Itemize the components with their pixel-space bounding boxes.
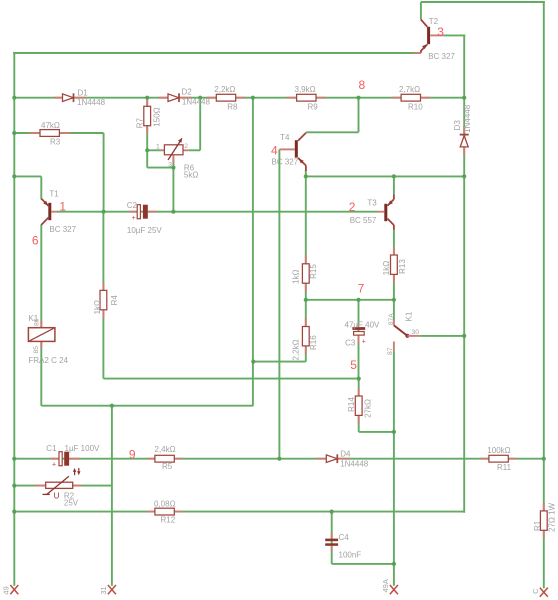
connector 31	[99, 585, 116, 595]
wire R7 vertical x=147.2	[146, 98, 148, 168]
svg-text:K1: K1	[404, 311, 413, 321]
svg-text:1: 1	[59, 200, 66, 214]
wire R2 row y=485.6	[13, 485, 112, 487]
svg-text:3: 3	[437, 25, 444, 39]
transistor T4 BC327	[271, 133, 306, 171]
varistor R2	[35, 468, 82, 508]
svg-text:87A: 87A	[388, 313, 395, 326]
svg-text:R12: R12	[161, 516, 176, 525]
wire R14 vertical x=358.7	[358, 379, 360, 432]
svg-text:9: 9	[129, 447, 136, 461]
svg-text:T3: T3	[367, 199, 377, 208]
svg-text:27Ω 1W: 27Ω 1W	[548, 502, 557, 532]
resistor R12 0.08	[147, 499, 183, 524]
svg-text:1N4448: 1N4448	[340, 459, 369, 468]
svg-text:2,7kΩ: 2,7kΩ	[399, 85, 420, 94]
capacitor C1 1uF	[46, 444, 100, 468]
wire T4 collector vertical x=358.5	[358, 98, 360, 133]
svg-text:47µF 40V: 47µF 40V	[345, 320, 381, 329]
svg-text:5kΩ: 5kΩ	[184, 171, 198, 180]
wire R16 bottom row y=361.6	[253, 361, 305, 363]
svg-text:31: 31	[99, 586, 108, 594]
svg-text:100nF: 100nF	[339, 551, 362, 560]
svg-text:100kΩ: 100kΩ	[487, 446, 510, 455]
wire R6 pin2 vertical x=200.2	[199, 98, 201, 151]
wire R4 vertical x=103.4	[102, 212, 104, 379]
svg-text:C3: C3	[345, 338, 356, 347]
svg-text:2,2kΩ: 2,2kΩ	[214, 85, 235, 94]
wire C4 bottom row y=563.9	[332, 563, 394, 565]
svg-text:10µF 25V: 10µF 25V	[127, 226, 163, 235]
svg-text:BC 327: BC 327	[272, 158, 299, 167]
svg-text:1kΩ: 1kΩ	[93, 300, 102, 314]
svg-text:R4: R4	[110, 295, 119, 306]
svg-text:T4: T4	[280, 133, 290, 142]
svg-text:30: 30	[412, 329, 420, 336]
svg-text:C2: C2	[127, 201, 138, 210]
resistor R11 100k	[481, 446, 517, 472]
wire R6 pin2 row	[189, 149, 200, 151]
wire node7 row y=299.8	[306, 299, 394, 301]
svg-text:49: 49	[1, 586, 10, 594]
svg-text:D1: D1	[78, 89, 89, 98]
svg-text:C: C	[531, 588, 540, 594]
capacitor C2 10uF	[127, 201, 163, 235]
wire T3 emitter vertical	[393, 176, 395, 194]
svg-text:R9: R9	[308, 103, 319, 112]
svg-text:R14: R14	[347, 397, 356, 412]
transistor T1 BC327	[32, 190, 77, 248]
wire emitter row y=176.4	[306, 175, 464, 177]
wire R6 pin3 vertical x=173.4	[172, 158, 174, 212]
transistor T3 BC557	[349, 195, 394, 230]
svg-text:BC 327: BC 327	[49, 225, 76, 234]
resistor R15 1k	[292, 255, 318, 292]
svg-text:49A: 49A	[381, 579, 390, 592]
svg-text:R15: R15	[309, 264, 318, 279]
svg-text:2: 2	[184, 143, 188, 150]
resistor R10 2.7k	[392, 85, 431, 112]
svg-text:1N4448: 1N4448	[182, 97, 211, 106]
wire net31 vertical x=111.9	[111, 406, 113, 586]
wire node9 row y=458.7 C1-R5-D4-R11	[13, 458, 544, 460]
resistor R3 47k	[29, 121, 71, 146]
svg-text:1N4448: 1N4448	[463, 104, 472, 133]
svg-text:25V: 25V	[64, 499, 79, 508]
svg-text:D4: D4	[340, 450, 351, 459]
svg-text:8: 8	[359, 78, 366, 92]
svg-text:0,08Ω: 0,08Ω	[154, 499, 176, 508]
svg-text:U: U	[54, 491, 60, 500]
svg-text:3,9kΩ: 3,9kΩ	[295, 85, 316, 94]
capacitor C4 100nF	[325, 533, 361, 560]
connector C	[531, 588, 548, 597]
svg-text:6: 6	[32, 233, 39, 247]
svg-text:+: +	[132, 215, 136, 222]
wire top net from T2 collector to right rail	[421, 1, 545, 3]
diode D3 vertical	[453, 104, 472, 156]
svg-text:4: 4	[271, 143, 278, 157]
wire R3 right vertical x=103.6	[103, 133, 105, 212]
potentiometer R6 5k	[156, 138, 198, 180]
svg-text:R1: R1	[533, 520, 542, 531]
svg-text:27kΩ: 27kΩ	[364, 399, 373, 418]
wire long top rail y=53	[13, 52, 421, 54]
svg-text:1N4448: 1N4448	[77, 98, 106, 107]
wire K1 coil row y=405.7	[41, 405, 253, 407]
resistor R5 2.4k	[147, 445, 183, 471]
connector 49	[1, 585, 18, 595]
wire T1 emitter vertical x=41.3	[40, 176, 42, 199]
wire T1 collector to K1 coil x=41.3	[40, 225, 42, 406]
svg-text:R11: R11	[497, 463, 512, 472]
svg-text:1: 1	[156, 144, 160, 151]
svg-text:1µF 100V: 1µF 100V	[65, 444, 101, 453]
svg-text:R13: R13	[398, 259, 407, 274]
resistor R13 1k	[382, 247, 407, 283]
wire R14 bottom row y=431.9	[359, 431, 394, 433]
svg-text:C4: C4	[339, 533, 350, 542]
resistor R8 2.2k	[207, 85, 246, 112]
wire R13 vertical x=393.9	[393, 229, 395, 300]
wire K1 87A vertical	[393, 300, 395, 321]
wire node5 row y=378.6	[103, 378, 358, 380]
svg-text:D2: D2	[182, 88, 193, 97]
wire T2 collector stub up	[420, 2, 422, 20]
wire K1 contact 30 row y=335.9	[420, 335, 464, 337]
svg-text:D3: D3	[453, 120, 462, 131]
wire R6 pin3 row y=167.6	[147, 167, 173, 169]
resistor R9 3.9k	[287, 85, 326, 112]
relay K1 switch contact	[387, 311, 420, 355]
wire R12 row y=511.6	[13, 511, 464, 513]
svg-text:T1: T1	[49, 190, 59, 199]
svg-text:R5: R5	[162, 462, 173, 471]
svg-text:FRA2 C 24: FRA2 C 24	[28, 356, 68, 365]
wire R15-R16 vertical x=305.8	[305, 170, 307, 362]
wire net4 vertical x=279.4 T4 base	[278, 149, 280, 458]
svg-text:47kΩ: 47kΩ	[41, 121, 60, 130]
svg-text:+: +	[362, 338, 366, 345]
wire right rail x=543.8	[543, 2, 545, 588]
svg-text:5: 5	[350, 358, 357, 372]
svg-text:R16: R16	[309, 335, 318, 350]
svg-text:+: +	[52, 461, 56, 468]
wire coil drive vertical x=252.9	[252, 98, 254, 406]
diode D4	[317, 450, 369, 469]
svg-text:C1: C1	[46, 444, 57, 453]
wire T1 emitter row y=176.4 left	[13, 175, 41, 177]
svg-text:150Ω: 150Ω	[153, 107, 162, 126]
connector 49A	[381, 579, 398, 594]
svg-text:1kΩ: 1kΩ	[382, 261, 391, 275]
resistor R16 2.2k	[291, 318, 317, 361]
wire T4 collector row y=132.3	[306, 131, 359, 133]
svg-text:2: 2	[349, 200, 356, 214]
diode D1	[54, 89, 106, 107]
wire K1 87 vertical down	[393, 351, 395, 586]
svg-text:K1: K1	[28, 314, 38, 323]
svg-text:2,2kΩ: 2,2kΩ	[291, 339, 300, 360]
wire R6 pin1 row	[147, 149, 161, 151]
svg-text:R8: R8	[227, 103, 238, 112]
svg-text:85: 85	[33, 346, 40, 354]
svg-text:2,4kΩ: 2,4kΩ	[155, 445, 176, 454]
capacitor C3 47uF	[345, 320, 381, 347]
svg-text:R3: R3	[50, 137, 61, 146]
relay K1 coil FRA2	[28, 314, 68, 365]
diode D2	[159, 88, 211, 107]
wire left rail x=14.3	[13, 52, 15, 586]
svg-text:R10: R10	[408, 103, 423, 112]
wire base row y=211.7 T1 to T3	[57, 211, 378, 213]
wire T2 base horizontal	[444, 34, 465, 36]
transistor T2 BC327	[414, 17, 456, 61]
svg-text:1kΩ: 1kΩ	[292, 270, 301, 284]
wire rail x=464.2 T2 base / D3 / K1-30	[463, 35, 465, 512]
wire main row y=97.7 D1-D2-R8-R9-R10	[13, 97, 464, 99]
resistor R14 27k	[347, 389, 372, 424]
svg-text:3: 3	[168, 161, 172, 168]
wire C4 vertical x=331.7	[331, 512, 333, 564]
wire C3 vertical x=358.5	[358, 300, 360, 379]
svg-text:BC 557: BC 557	[350, 216, 377, 225]
resistor R7 150	[135, 99, 161, 134]
svg-text:7: 7	[358, 281, 365, 295]
svg-text:BC 327: BC 327	[428, 52, 455, 61]
resistor R1 27ohm 1W	[533, 502, 557, 538]
svg-text:R7: R7	[135, 118, 144, 129]
wire R3 row y=133	[13, 132, 103, 134]
svg-text:87: 87	[387, 347, 394, 355]
resistor R4 1k	[93, 282, 119, 318]
